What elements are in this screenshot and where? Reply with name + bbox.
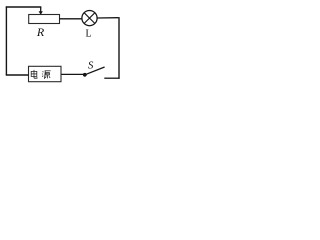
switch S blade: [85, 67, 105, 75]
svg-text:R: R: [36, 25, 45, 39]
power supply label 电: [31, 70, 37, 78]
lamp L circle: [82, 11, 97, 26]
svg-text:L: L: [86, 29, 92, 40]
wire resistor to lamp: [60, 18, 83, 20]
power supply box: [29, 66, 62, 81]
wire lamp to top-right corner: [97, 17, 118, 19]
wire power supply to switch: [61, 73, 84, 75]
resistor R body: [29, 15, 60, 24]
wire bottom-right stub: [104, 77, 119, 79]
switch S pivot dot: [83, 73, 87, 77]
wire left vertical: [5, 6, 7, 75]
arrowhead of slider onto R: [39, 11, 43, 15]
wire right vertical: [118, 17, 120, 79]
power supply label 源: [42, 71, 51, 79]
svg-text:S: S: [88, 59, 94, 71]
lamp X cross: [84, 13, 95, 24]
wire rheostat slider drop: [40, 7, 42, 12]
wire bottom-left horizontal: [6, 74, 29, 76]
wire top horizontal: [6, 6, 42, 8]
